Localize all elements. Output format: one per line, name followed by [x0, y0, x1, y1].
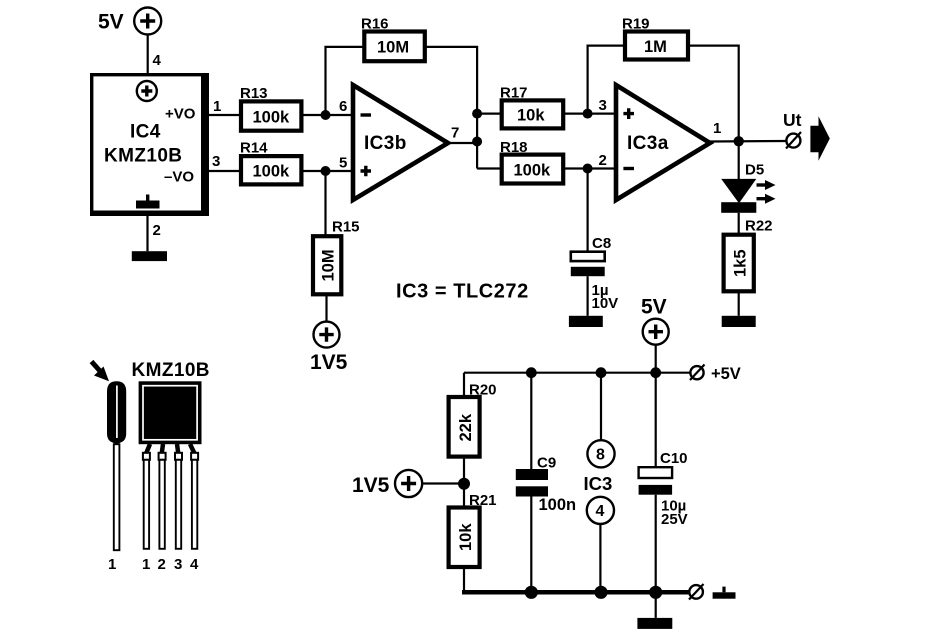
- wire rail to C10: [655, 373, 657, 469]
- resistor R16: [361, 16, 425, 62]
- wire rail to R20: [463, 373, 465, 397]
- sensor package drawing: lead 2: [158, 444, 166, 573]
- ground symbol (small, right): [713, 587, 736, 599]
- svg-text:2: 2: [153, 222, 161, 239]
- sensor package drawing: body: [139, 381, 202, 444]
- node junction pin5: [321, 166, 331, 176]
- svg-text:–VO: –VO: [164, 169, 194, 186]
- terminal ground: [689, 584, 704, 600]
- svg-text:5V: 5V: [641, 296, 667, 319]
- svg-text:7: 7: [451, 125, 459, 142]
- svg-text:1V5: 1V5: [310, 351, 348, 374]
- svg-text:2: 2: [599, 152, 607, 169]
- svg-text:C8: C8: [592, 235, 611, 252]
- svg-text:10k: 10k: [457, 523, 475, 551]
- resistor R15: [313, 219, 360, 295]
- svg-text:10M: 10M: [320, 249, 338, 281]
- wire R20 to node: [463, 457, 465, 508]
- capacitor C9: [516, 455, 576, 515]
- wire R13 to IC3b: [301, 114, 353, 116]
- svg-text:C9: C9: [537, 455, 556, 472]
- wire 5V to IC4 pin 4: [147, 35, 149, 75]
- wire R22 to ground: [738, 291, 740, 316]
- svg-text:IC4: IC4: [130, 122, 161, 143]
- sensor package drawing: probe body: [107, 381, 126, 444]
- node pin3: [583, 109, 593, 119]
- wire R17 to IC3a pin3: [563, 112, 616, 114]
- sensor package drawing: lead 3: [174, 444, 182, 573]
- svg-text:C10: C10: [660, 450, 688, 467]
- svg-text:3: 3: [174, 556, 182, 573]
- wire D5 to R22: [738, 213, 740, 235]
- svg-text:3: 3: [212, 153, 220, 170]
- node output IC3a: [734, 136, 744, 146]
- svg-text:5V: 5V: [98, 11, 124, 34]
- wire to R18: [477, 167, 502, 169]
- svg-text:1: 1: [142, 556, 150, 573]
- wire R14 to IC3b: [301, 170, 353, 172]
- IC3 supply pin 4: [587, 497, 614, 524]
- terminal 1V5 (mid): [310, 322, 348, 374]
- svg-text:1: 1: [108, 556, 116, 573]
- sensor package drawing: lead 1: [142, 444, 150, 573]
- svg-text:4: 4: [190, 556, 199, 573]
- svg-text:KMZ10B: KMZ10B: [132, 360, 210, 381]
- svg-text:+VO: +VO: [165, 106, 196, 123]
- wire 1V5 to node: [422, 482, 464, 484]
- capacitor C10 (electrolytic): [639, 450, 688, 528]
- wire C8 to ground: [586, 276, 588, 316]
- sensor package drawing: lead 4: [190, 444, 199, 573]
- svg-text:D5: D5: [745, 162, 764, 179]
- wire rail to IC3 pin8: [600, 373, 602, 440]
- ground (C10): [637, 618, 672, 629]
- svg-text:KMZ10B: KMZ10B: [104, 146, 182, 167]
- wire IC3a output to Ut: [710, 140, 786, 143]
- wire feedback R19 left: [588, 46, 625, 114]
- resistor R19: [622, 16, 688, 60]
- svg-text:R17: R17: [500, 85, 528, 102]
- node gnd C10: [649, 586, 662, 599]
- resistor R20: [449, 382, 497, 457]
- svg-text:1: 1: [713, 120, 721, 137]
- svg-text:IC3a: IC3a: [627, 133, 669, 154]
- terminal +5V: [690, 365, 741, 384]
- pin 2 wire: [146, 216, 148, 251]
- svg-text:R15: R15: [332, 219, 360, 236]
- sensor IC4 KMZ10B (box): [90, 73, 209, 216]
- svg-text:2: 2: [158, 556, 166, 573]
- wire R19 to output node: [688, 46, 739, 142]
- resistor R17: [500, 85, 563, 129]
- LED D5: [721, 162, 775, 213]
- svg-text:IC3b: IC3b: [364, 133, 407, 154]
- svg-text:R22: R22: [745, 218, 773, 235]
- svg-text:R21: R21: [469, 492, 497, 509]
- resistor R14: [240, 140, 301, 185]
- svg-text:6: 6: [339, 98, 347, 115]
- resistor R22: [724, 218, 773, 292]
- svg-text:5: 5: [339, 155, 347, 172]
- sensor package drawing: probe pin: [108, 444, 119, 573]
- svg-text:Ut: Ut: [783, 110, 802, 130]
- node rail IC3: [596, 367, 607, 378]
- ground (C8): [569, 316, 603, 327]
- resistor R18: [500, 139, 563, 184]
- svg-text:R19: R19: [622, 16, 650, 33]
- node rail C9: [526, 367, 537, 378]
- svg-text:IC3: IC3: [584, 473, 613, 494]
- svg-text:R13: R13: [240, 85, 268, 102]
- svg-text:R14: R14: [240, 140, 268, 157]
- node gnd IC3: [594, 586, 607, 599]
- svg-text:R20: R20: [469, 382, 497, 399]
- terminal 1V5 (left): [352, 470, 422, 497]
- svg-text:3: 3: [599, 97, 607, 114]
- svg-text:100k: 100k: [253, 109, 291, 127]
- wire rail to C9: [530, 373, 532, 469]
- node output IC3b: [472, 137, 482, 147]
- svg-text:+5V: +5V: [711, 365, 741, 383]
- svg-text:10V: 10V: [592, 295, 619, 312]
- sensor package drawing: arrow pointer: [92, 362, 110, 382]
- node R17 junction left: [472, 109, 482, 119]
- wire to R17: [477, 112, 502, 114]
- svg-text:22k: 22k: [457, 413, 475, 441]
- wire C10 to ground: [655, 495, 657, 618]
- resistor R21: [449, 492, 497, 567]
- wire R16 to output node: [425, 47, 477, 114]
- node gnd C9: [525, 586, 538, 599]
- wire +5V rail (top): [464, 372, 690, 374]
- node junction pin6: [321, 110, 331, 120]
- op-amp U IC3b: [353, 85, 448, 200]
- svg-text:1: 1: [213, 98, 221, 115]
- wire C9 to ground rail: [530, 497, 532, 593]
- svg-text:1V5: 1V5: [352, 474, 390, 497]
- terminal Ut: [783, 110, 802, 149]
- svg-text:10M: 10M: [377, 39, 409, 57]
- wire 5V to rail: [655, 345, 657, 373]
- ground (R22): [722, 316, 756, 327]
- wire feedback left (node 6 up to R16): [326, 47, 365, 115]
- svg-text:1k5: 1k5: [732, 249, 750, 277]
- resistor R13: [240, 85, 301, 131]
- wire ground rail (bottom): [462, 590, 689, 595]
- ground (IC4 pin 2): [132, 251, 167, 261]
- svg-text:10k: 10k: [517, 107, 545, 125]
- wire R21 to ground rail: [463, 567, 465, 592]
- IC3 supply pin 8: [587, 440, 614, 467]
- svg-text:100k: 100k: [253, 163, 291, 181]
- arrow output (block arrow): [810, 116, 829, 161]
- svg-text:R16: R16: [361, 16, 389, 33]
- pin 1 wire: [208, 114, 241, 116]
- pin 3 wire: [208, 170, 241, 172]
- wire IC3b output: [448, 114, 477, 169]
- op-amp U IC3a: [616, 85, 710, 200]
- wire IC3 pin4 to ground rail: [599, 524, 601, 592]
- svg-text:100n: 100n: [539, 496, 577, 514]
- svg-text:8: 8: [596, 447, 605, 464]
- capacitor C8: [571, 235, 618, 312]
- wire R18 to IC3a pin2: [563, 167, 616, 169]
- svg-text:25V: 25V: [661, 511, 688, 528]
- wire pin2 node to C8: [586, 169, 588, 252]
- node rail 5V: [650, 367, 661, 378]
- svg-text:IC3 = TLC272: IC3 = TLC272: [396, 281, 529, 303]
- svg-text:4: 4: [596, 503, 605, 520]
- wire output node to D5: [738, 142, 740, 180]
- terminal 5V (top left): [98, 8, 161, 35]
- svg-text:100k: 100k: [514, 162, 552, 180]
- svg-text:R18: R18: [500, 139, 528, 156]
- svg-text:4: 4: [153, 52, 162, 69]
- svg-text:1M: 1M: [644, 38, 667, 56]
- node 1V5: [458, 478, 470, 490]
- node pin2: [583, 164, 593, 174]
- wire R15 column: [326, 171, 327, 322]
- terminal 5V (power section): [641, 296, 669, 345]
